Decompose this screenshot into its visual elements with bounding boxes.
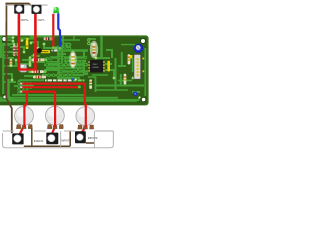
panel outline bottom xyxy=(3,131,114,148)
jack OUT+ xyxy=(14,5,24,14)
trace network xyxy=(0,36,145,100)
LED green xyxy=(53,7,59,13)
pad wire end LED red xyxy=(52,46,55,49)
pad yellow small xyxy=(130,55,132,58)
potentiometer P1 xyxy=(15,106,34,128)
wire red pot1 to jack1 xyxy=(20,127,24,135)
resistor R-mid (horizontal small) xyxy=(29,58,48,61)
wire trace xyxy=(20,37,35,39)
svg-text:INPUT3: INPUT3 xyxy=(88,136,98,140)
wire red jack2 down xyxy=(34,13,37,70)
capacitor small blue disc right xyxy=(133,92,138,97)
wire trace xyxy=(20,69,32,71)
resistor R-glow (vertical center, bright) xyxy=(71,53,74,67)
trace corner left of wire tips xyxy=(19,80,44,94)
wire trace bottom right step xyxy=(137,97,140,100)
wire trace bottom bus 2 xyxy=(0,97,118,99)
wire trace xyxy=(3,74,12,80)
potentiometer P3 xyxy=(76,107,95,129)
wire brown ground top to bottom xyxy=(6,4,31,134)
wire trace vertical right xyxy=(100,36,102,58)
potentiometer P2 xyxy=(46,106,65,128)
wire red bus2 xyxy=(22,86,80,88)
jack IN3 xyxy=(75,131,86,143)
wire trace xyxy=(16,60,30,64)
wire red LED left leg xyxy=(52,14,54,48)
wire blue LED right leg xyxy=(58,13,60,48)
wire trace xyxy=(3,51,20,53)
mounting hole bottom-left xyxy=(3,95,7,99)
pads chip-left dark centers xyxy=(88,39,90,41)
wire trace right of center xyxy=(88,38,96,40)
wire trace xyxy=(48,63,60,65)
svg-text:INPUT2: INPUT2 xyxy=(62,139,72,143)
wire brown jack3 right xyxy=(86,142,94,144)
board edge highlight xyxy=(0,36,148,105)
wire trace xyxy=(3,81,16,83)
wire trace xyxy=(42,74,66,76)
wire trace xyxy=(24,75,40,77)
wire red drop to pot1 xyxy=(24,92,26,127)
silkscreen text yellow row xyxy=(47,83,67,85)
wire trace chip area xyxy=(84,60,88,74)
wire red bus1 to pot3 xyxy=(22,84,86,127)
svg-text:74HC: 74HC xyxy=(92,64,98,66)
panel outline top-left xyxy=(6,5,48,22)
wire red jack1 down xyxy=(18,13,21,70)
resistor R-mid3 (horizontal) xyxy=(33,76,46,79)
wire trace around keepout xyxy=(121,45,136,52)
wire trace xyxy=(44,44,56,48)
silkscreen text white row xyxy=(45,79,72,81)
wire trace xyxy=(3,65,24,67)
wire trace xyxy=(106,50,112,58)
wire trace xyxy=(3,57,14,59)
connector SIL right xyxy=(134,54,144,79)
capacitor yellow horizontal C2 xyxy=(40,50,50,53)
wire trace xyxy=(32,58,44,62)
wire red pot3 to jack3 xyxy=(80,126,85,134)
trimpot blue (top right) xyxy=(134,44,143,53)
mounting hole top-right xyxy=(141,39,146,44)
pads xyxy=(11,36,135,81)
pad white mini near blue disc xyxy=(139,96,141,98)
resistor R-top (horizontal) xyxy=(44,37,54,40)
PCB board xyxy=(0,35,149,105)
resistor R-right2 (vertical) xyxy=(124,74,127,85)
pad grid under wires xyxy=(22,82,33,93)
jack OUT- xyxy=(32,5,42,14)
wire trace bottom bus xyxy=(0,99,137,102)
capacitor yellow bar right of chip xyxy=(107,61,110,72)
wire trace right side xyxy=(115,58,117,90)
wire trace center cluster xyxy=(57,46,70,48)
wire trace xyxy=(22,55,34,60)
glow behind R-glow xyxy=(69,51,77,69)
diode silver horizontal xyxy=(51,50,57,52)
wire red into pot1 xyxy=(24,104,26,128)
wire trace xyxy=(3,41,13,44)
resistor R-left3 (vertical yellowish) xyxy=(10,59,13,67)
transistor black disc Q1 xyxy=(37,48,42,53)
wire red pot2 to jack2 xyxy=(52,127,56,135)
wire trace bottom bus 3 xyxy=(12,94,86,96)
resistor R-mid2 (horizontal) xyxy=(28,70,47,73)
mounting hole bottom-right xyxy=(141,97,145,101)
pad donut column left of wire tips xyxy=(17,81,20,95)
resistor R-left2 (vertical) xyxy=(17,45,20,56)
wire red drop to pot2 xyxy=(54,92,56,127)
LED leg stubs silver xyxy=(54,13,56,15)
svg-text:U4066: U4066 xyxy=(92,67,99,69)
resistor R-c1 (vertical, by chip top) xyxy=(93,43,96,56)
wire red horizontal joint xyxy=(18,68,36,70)
wire red through pot3 xyxy=(85,105,87,128)
wire trace xyxy=(44,69,58,71)
jack IN1 xyxy=(12,133,23,144)
wire trace top-left xyxy=(0,37,13,39)
wire trace xyxy=(10,47,24,52)
capacitor yellow vertical C1 xyxy=(26,38,28,40)
wire red through pot2 xyxy=(54,104,56,127)
pads mid with dark centers xyxy=(62,43,71,48)
resistor R-text-row (vertical) xyxy=(89,79,92,89)
wire trace xyxy=(31,55,40,57)
svg-text:INAUX1: INAUX1 xyxy=(34,139,44,143)
wire trace around bottom-left hole xyxy=(8,79,14,100)
capacitor tiny blue xyxy=(71,78,74,80)
resistor R-left1 (vertical) xyxy=(13,45,16,56)
wire brown bottom bus xyxy=(24,145,70,147)
resistor R-right1 (vertical) xyxy=(128,54,131,64)
pad wire end LED blue xyxy=(59,47,62,50)
relay/resonator silver square xyxy=(20,64,26,72)
wire red bus3 xyxy=(22,90,56,92)
op-amp IC U1 xyxy=(88,60,104,73)
svg-text:OUT-: OUT- xyxy=(38,18,45,22)
pad wire end bus2 xyxy=(78,86,81,89)
wire brown vertical right xyxy=(69,131,71,146)
glow behind R-c1 xyxy=(90,41,98,59)
jack IN2 xyxy=(46,133,58,145)
mounting hole top-left xyxy=(2,37,7,42)
wire brown pot1 lug down xyxy=(30,127,33,147)
wire trace left vertical xyxy=(2,43,4,94)
wire trace xyxy=(14,85,34,87)
pad donuts center cluster xyxy=(43,45,88,77)
wire trace xyxy=(30,36,55,38)
svg-text:OUT+: OUT+ xyxy=(21,18,29,22)
